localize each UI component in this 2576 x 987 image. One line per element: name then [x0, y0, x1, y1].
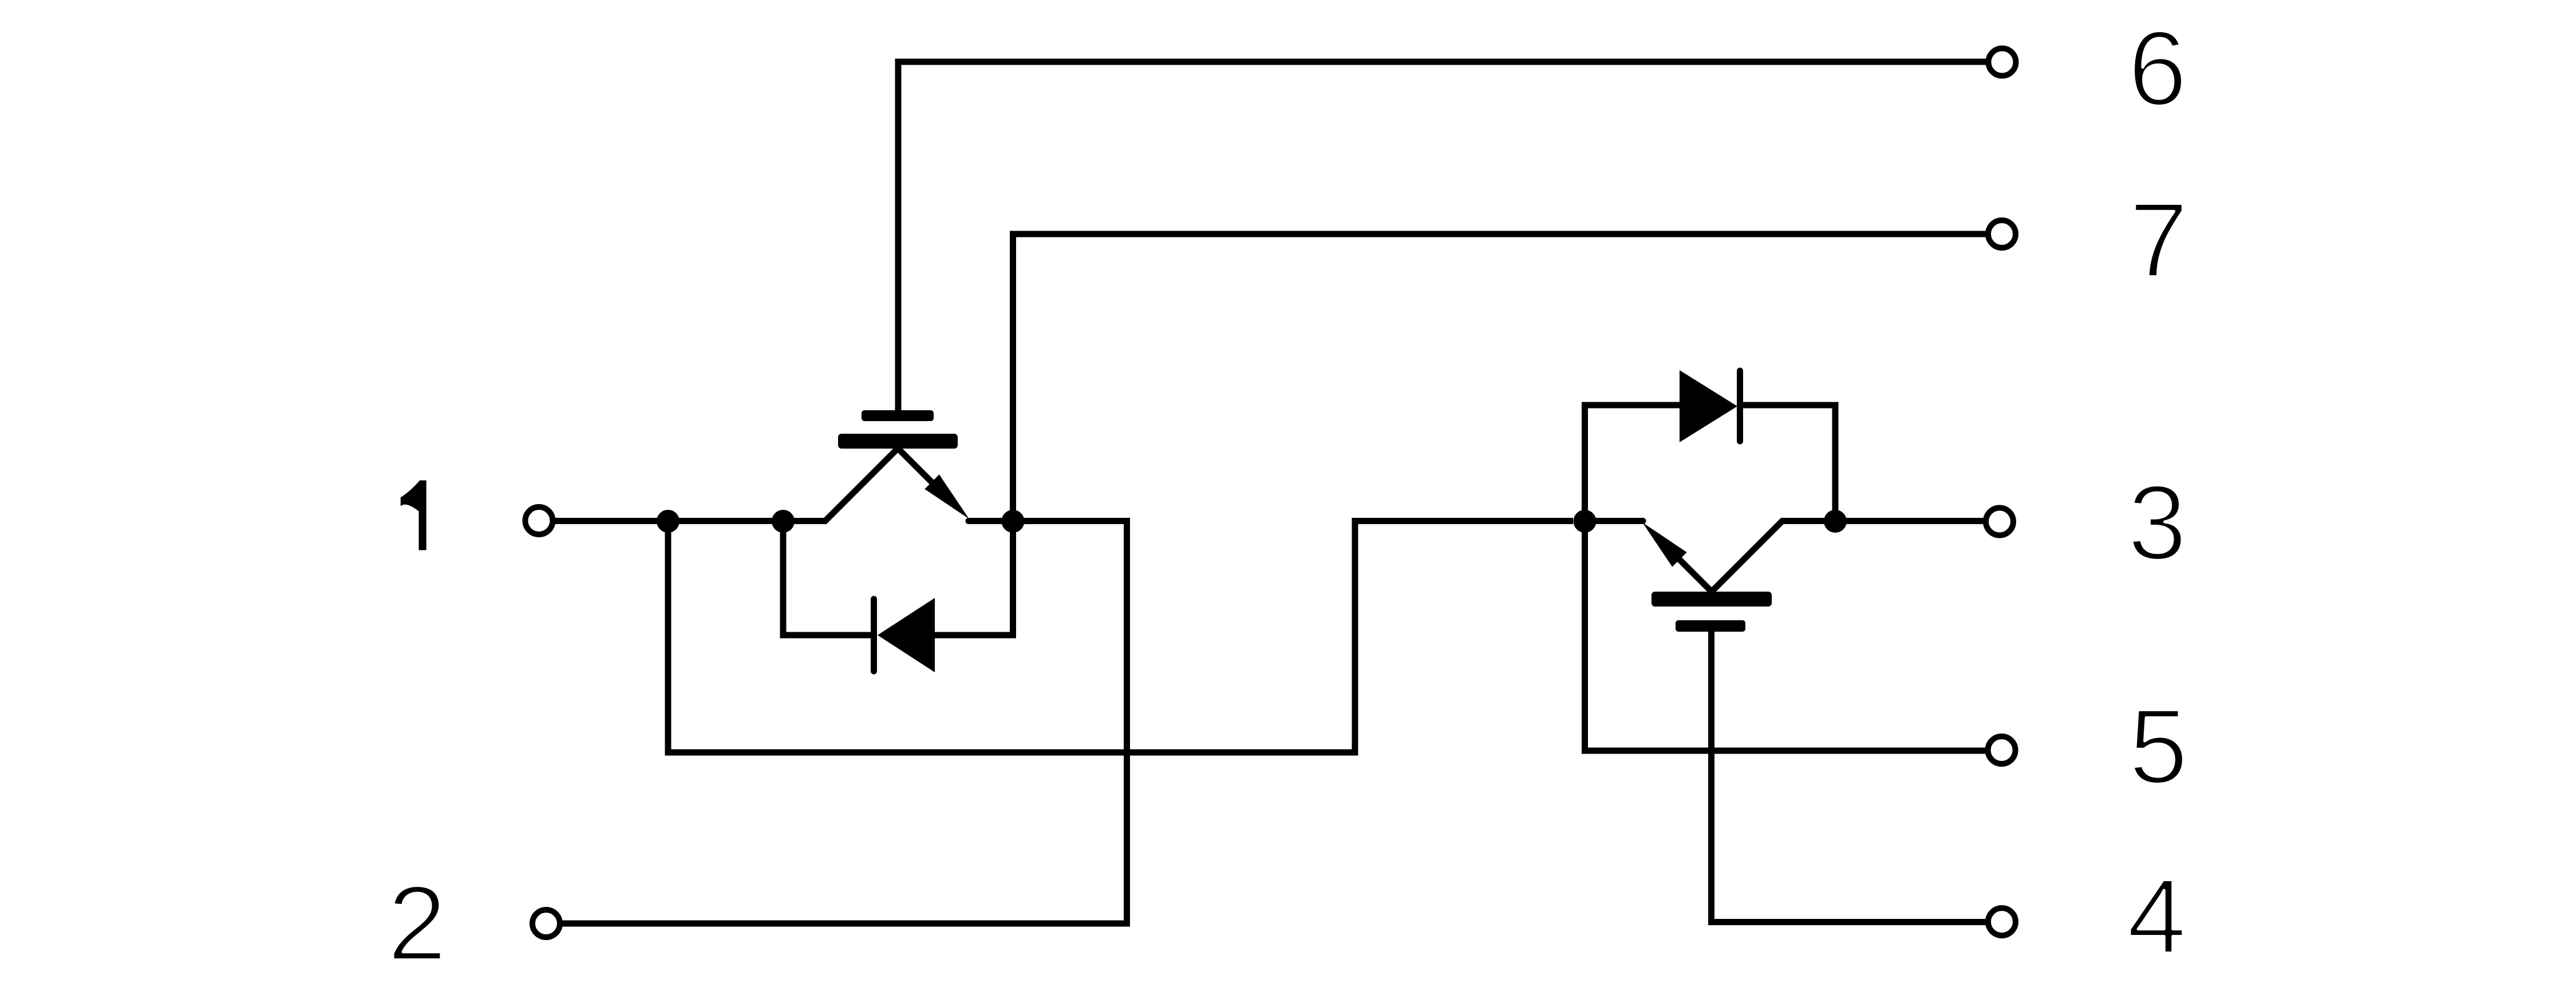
wire gate lead of Q1 up and across to terminal 6: [898, 62, 1986, 417]
wire diode D2 cathode branch to node R: [1741, 405, 1835, 519]
terminal 5 circle: [1988, 736, 2016, 764]
svg-text:5: 5: [2129, 688, 2188, 806]
transistor Q1 emitter arrowhead: [924, 474, 969, 519]
wire diode D1 left branch: [783, 524, 875, 635]
diode D1 cathode bar: [871, 599, 877, 671]
wire from node L down and across to terminal 5: [1585, 524, 1987, 751]
diode D2 triangle: [1680, 370, 1737, 442]
terminal 2 circle: [532, 910, 560, 937]
wire gate lead of Q2 down and across to terminal 4: [1712, 625, 1987, 922]
transistor Q2 body bar: [1652, 592, 1772, 607]
wire emitter slant shaft of Q2: [1660, 540, 1712, 592]
transistor Q2 gate bar: [1676, 620, 1745, 632]
transistor Q1 gate bar: [862, 410, 934, 421]
svg-text:3: 3: [2128, 464, 2187, 582]
diode D1 triangle: [878, 598, 935, 672]
wire diode D1 right branch: [934, 524, 1013, 635]
diode D2 cathode bar: [1737, 371, 1743, 441]
wire link from node A down, across, up to node L: [668, 521, 1573, 753]
node A junction dot: [657, 510, 679, 533]
svg-text:2: 2: [388, 865, 447, 983]
transistor Q2 emitter arrowhead: [1642, 522, 1687, 567]
terminal 3 circle: [1986, 508, 2013, 536]
wire collector slant of Q2 and rail to terminal 3: [1712, 521, 1835, 592]
wire rail from node R to terminal 3: [1835, 518, 1986, 524]
wire emitter slant shaft of Q1: [898, 449, 951, 501]
transistor Q1 body bar: [838, 434, 958, 449]
node R junction dot: [1824, 510, 1847, 533]
wire diode D2 anode branch from node L: [1585, 405, 1681, 519]
terminal 4 circle: [1988, 908, 2016, 936]
terminal 1 circle: [526, 507, 553, 534]
pin label 1: [401, 481, 426, 550]
terminal 7 circle: [1988, 220, 2016, 248]
terminal 6 circle: [1989, 49, 2016, 76]
node C junction dot: [1002, 510, 1025, 533]
wire rail node1 from terminal 1 to IGBT1 collector slant: [553, 449, 898, 521]
node B junction dot: [772, 510, 795, 533]
wire emitter segment of Q1 to corner then down and left to terminal 2: [563, 521, 1127, 924]
node L junction dot: [1574, 510, 1597, 533]
svg-text:4: 4: [2127, 858, 2186, 976]
svg-text:6: 6: [2128, 10, 2187, 128]
wire emitter stub of Q2 from node L: [1585, 518, 1643, 524]
wire from node C up and across to terminal 7: [1013, 234, 1987, 524]
svg-text:7: 7: [2129, 181, 2188, 300]
